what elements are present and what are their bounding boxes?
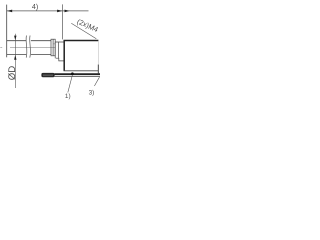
dimension line top — [7, 10, 89, 12]
break curve 1 — [25, 36, 28, 58]
arrow blob right of ext — [65, 10, 70, 13]
body right edge upper (faint) — [97, 41, 99, 64]
washer stack — [51, 39, 55, 56]
leader (2x)M4 — [71, 23, 96, 39]
arrow left (tip at left ext) — [7, 10, 12, 13]
body bottom edge — [64, 70, 99, 72]
svg-text:3): 3) — [89, 89, 95, 96]
arrow right inner (tip at right ext) — [57, 10, 62, 13]
solid rubber bar — [41, 73, 54, 77]
arrow up (tip at bottom edge) — [14, 55, 16, 60]
left extension / face line — [6, 5, 8, 58]
shaft bottom edge — [7, 54, 51, 56]
washer chamfer tick — [53, 43, 55, 45]
plate bottom thin line — [55, 76, 101, 78]
svg-text:(2x)M4: (2x)M4 — [76, 17, 100, 34]
centerline — [0, 46, 55, 48]
body top+left edges — [64, 41, 98, 71]
bar inner light slit — [43, 74, 53, 76]
svg-text:ØD: ØD — [7, 66, 18, 80]
break curve 2 — [29, 36, 32, 58]
body fill — [64, 41, 98, 71]
nut profile — [55, 42, 63, 61]
plate top thick line — [55, 73, 101, 75]
svg-text:4): 4) — [32, 2, 38, 11]
weld dot — [71, 72, 74, 75]
shaft top edge — [7, 40, 51, 42]
diameter dim line — [14, 34, 16, 88]
leader 3) — [94, 77, 99, 86]
body right edge lower — [97, 65, 99, 74]
svg-text:1): 1) — [65, 93, 71, 100]
washer inner line — [52, 39, 54, 56]
right extension line — [62, 4, 64, 39]
leader 1) — [68, 75, 73, 92]
arrow down (tip at top edge) — [14, 36, 16, 41]
